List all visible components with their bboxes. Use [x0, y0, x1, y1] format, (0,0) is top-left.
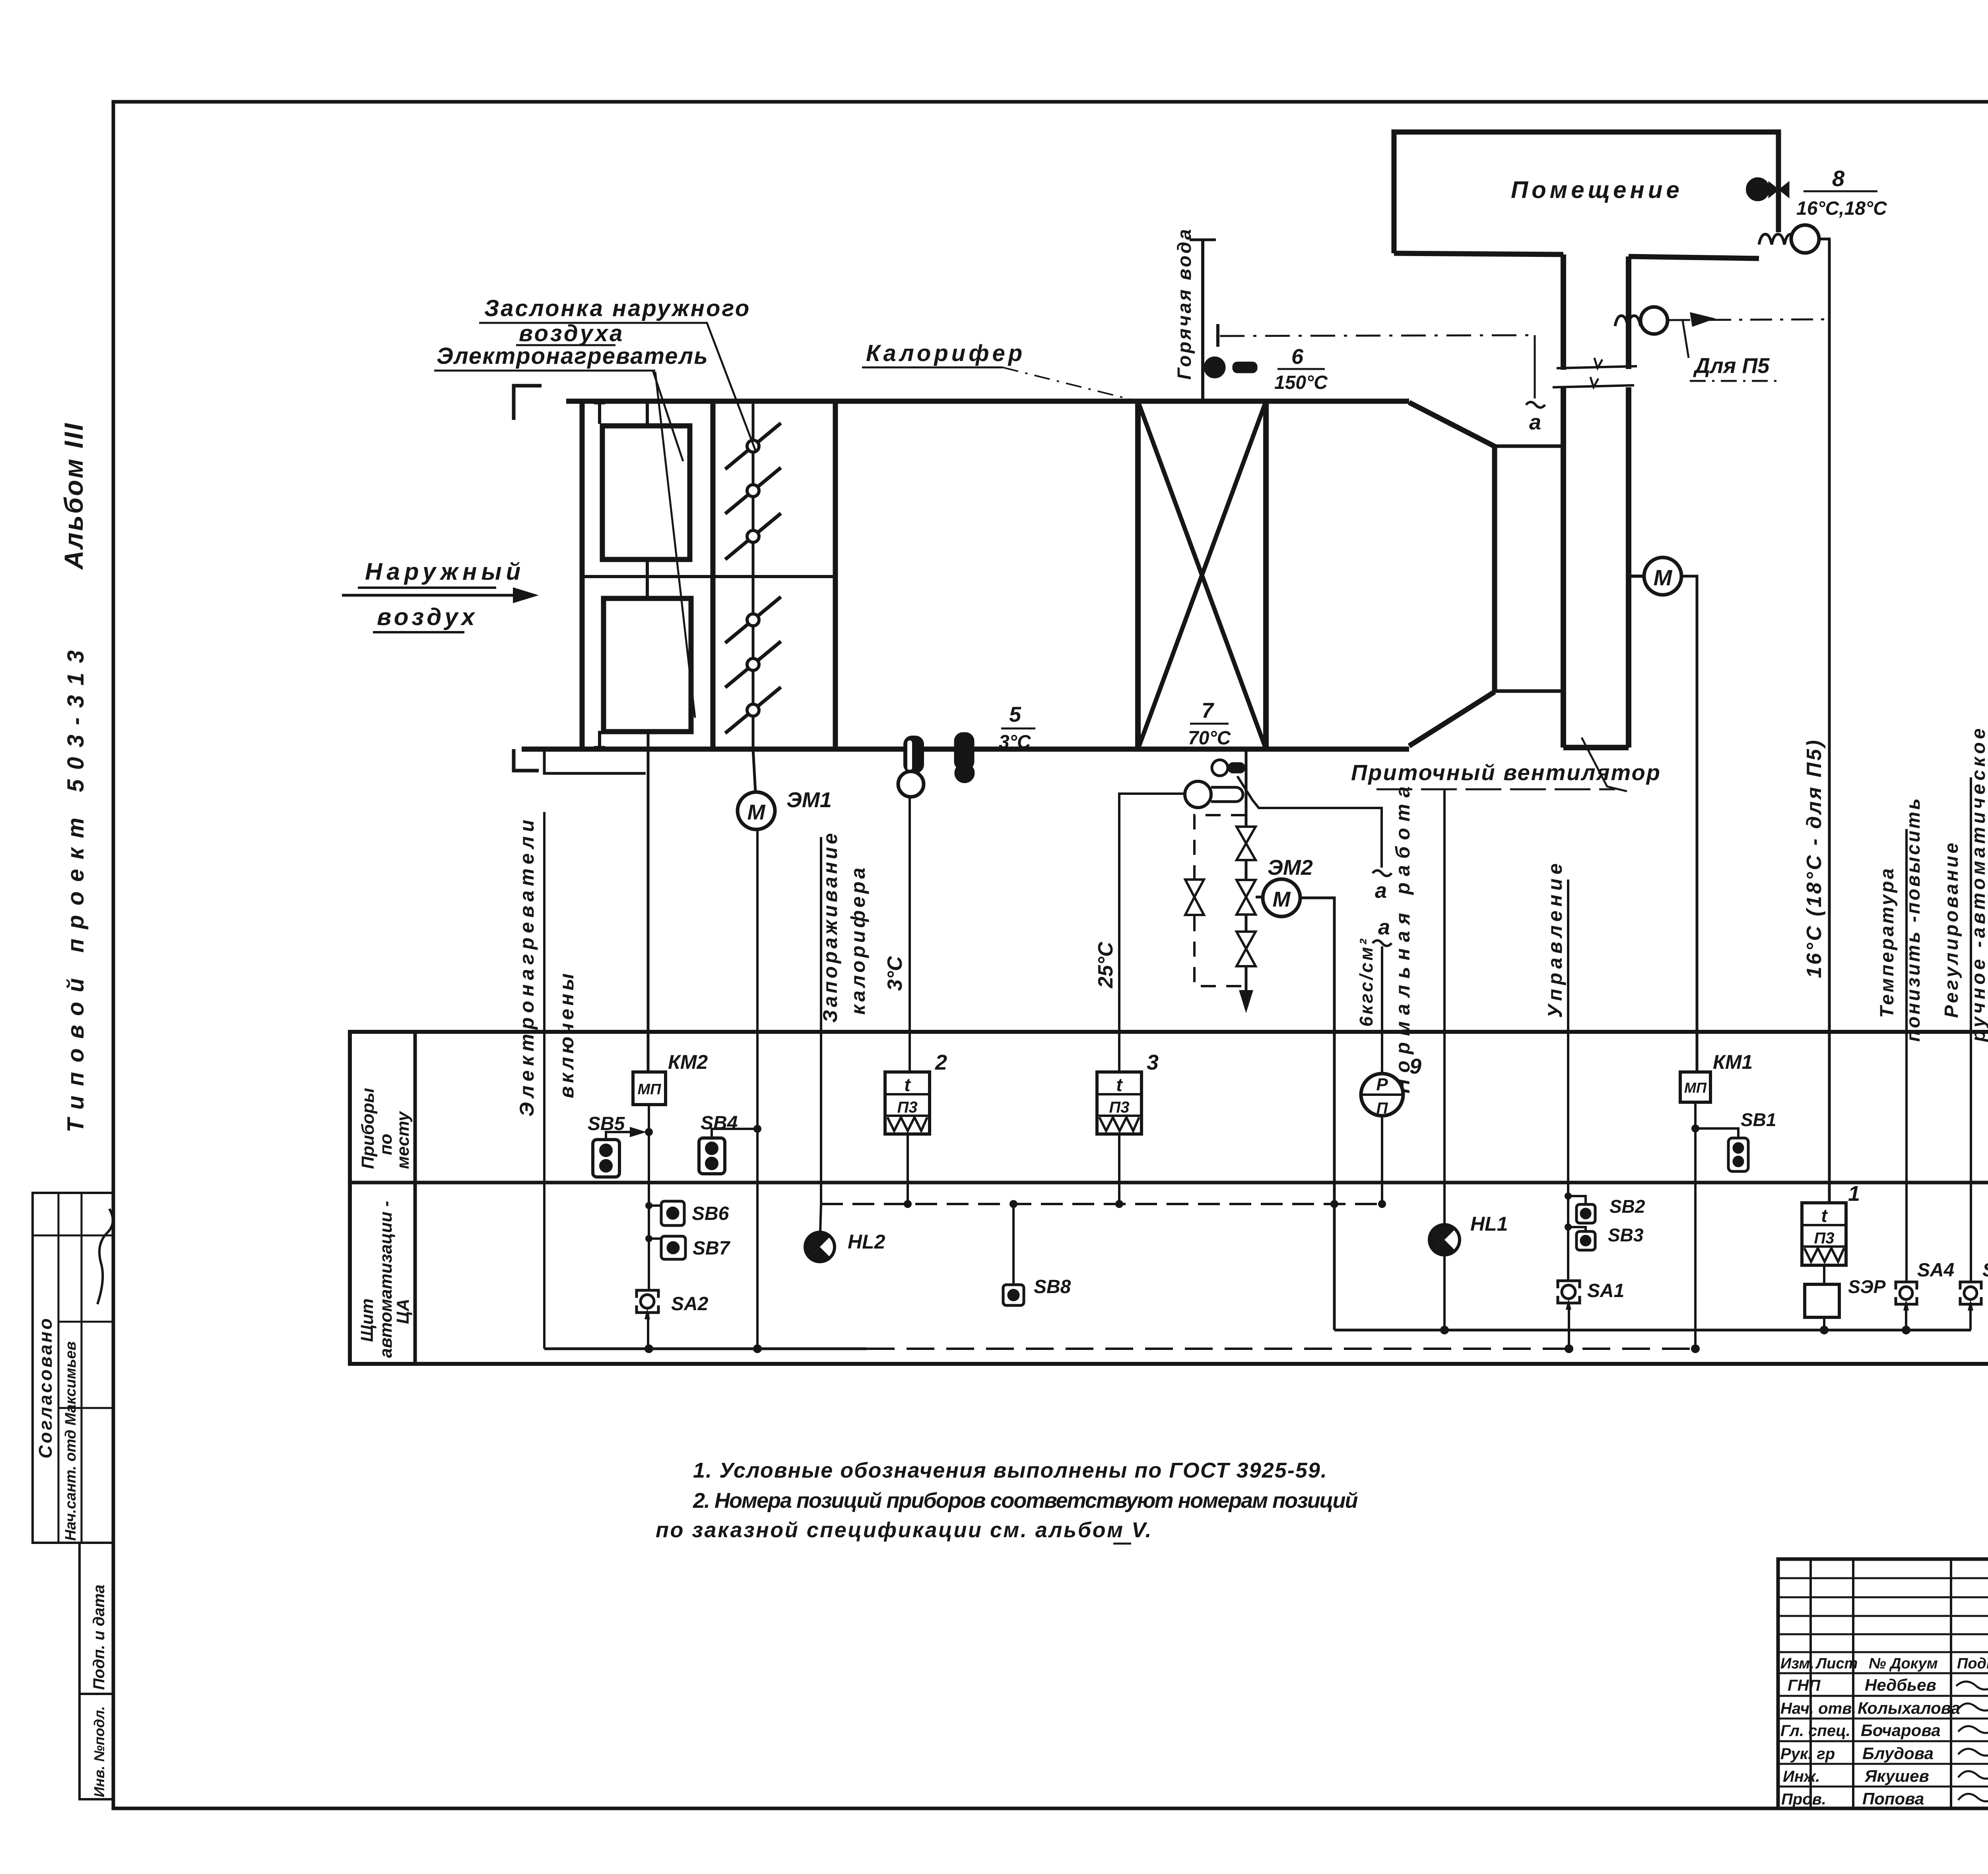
- SA1 stem to bus: [1568, 1310, 1570, 1349]
- contactor KM1 box МП: [1680, 1072, 1710, 1102]
- label: Наружный воздух: [365, 558, 525, 630]
- svg-text:a: a: [1378, 915, 1390, 939]
- damper blade 4: [725, 597, 781, 643]
- instrument 1 stem to SJP: [1823, 1265, 1825, 1284]
- svg-text:6кгс/см²: 6кгс/см²: [1356, 937, 1376, 1027]
- svg-text:Температура: Температура: [1877, 866, 1898, 1018]
- switch SA4: [1896, 1282, 1917, 1311]
- gauge 9 lower stem: [1381, 1116, 1383, 1204]
- wire SB5 to KM2 column with arrow: [606, 1127, 646, 1140]
- fan inlet bottom stub: [1495, 689, 1563, 693]
- wire KM2 box to junction: [648, 1105, 650, 1132]
- instrument 2 lower stem: [907, 1134, 909, 1204]
- hot water pipe top tick: [1190, 239, 1216, 241]
- room sensor 8 bowtie: [1758, 181, 1789, 198]
- room thermostat valve circle: [1791, 225, 1819, 253]
- svg-text:Лист: Лист: [1815, 1655, 1858, 1672]
- hot water pipe (Горячая вода): [1201, 239, 1204, 401]
- signature table column lines: [1811, 1559, 1988, 1808]
- svg-text:Гл. спец.: Гл. спец.: [1780, 1722, 1850, 1740]
- leader to fan: [1582, 738, 1627, 791]
- dash-dot leader from Калорифер to heat exchanger: [1003, 367, 1136, 401]
- electric heater box 1: [602, 426, 690, 559]
- wire sensor 7 to node a: [1237, 776, 1382, 868]
- svg-text:М: М: [747, 800, 766, 824]
- solenoid motor ЭМ2: [1256, 879, 1300, 917]
- svg-text:SЭР: SЭР: [1848, 1276, 1886, 1297]
- svg-text:t: t: [1821, 1205, 1828, 1226]
- svg-text:ЭМ1: ЭМ1: [786, 788, 832, 812]
- button SB5: [593, 1140, 619, 1177]
- top mounting tick: [594, 403, 605, 424]
- bus 2 junction dots: [645, 1344, 1700, 1353]
- signal line: Запораживание калорифера: [820, 837, 822, 1204]
- switch SA1: [1558, 1281, 1580, 1310]
- arrow on impulse line: [1690, 312, 1716, 327]
- rotated label: Электронагреватели включены: [516, 816, 578, 1117]
- svg-text:Подп.: Подп.: [1957, 1655, 1988, 1672]
- svg-text:понизить -повысить: понизить -повысить: [1903, 796, 1924, 1042]
- wire SB4 to ЭМ1 column: [712, 1129, 757, 1138]
- svg-text:Нормальная работа: Нормальная работа: [1392, 780, 1414, 1093]
- svg-text:месту: месту: [393, 1111, 413, 1169]
- operational dash bus: [821, 1203, 1382, 1205]
- svg-text:a: a: [1375, 879, 1387, 903]
- duct thermostat coil (П5): [1615, 316, 1640, 326]
- svg-text:П3: П3: [1109, 1099, 1129, 1116]
- button SB8: [1003, 1285, 1024, 1305]
- svg-text:П3: П3: [1814, 1229, 1834, 1247]
- HL1 lower stem: [1443, 1255, 1446, 1330]
- pipe segment between V2 and V3: [1245, 915, 1248, 932]
- rotated label: Температура понизить-повысить: [1877, 796, 1924, 1042]
- damper blade 2: [725, 468, 781, 514]
- junction dot SB2: [1565, 1192, 1572, 1200]
- fan motor M circle: [1629, 557, 1681, 595]
- svg-text:автоматизации -: автоматизации -: [376, 1201, 396, 1358]
- SA4 stem to bus: [1905, 1311, 1907, 1330]
- svg-text:SB2: SB2: [1609, 1196, 1645, 1217]
- svg-text:Рук. гр: Рук. гр: [1780, 1745, 1835, 1763]
- svg-text:Помещение: Помещение: [1511, 177, 1683, 203]
- svg-text:КМ1: КМ1: [1713, 1051, 1753, 1073]
- fraction label 5 / 3°C: [999, 703, 1031, 753]
- dash-dot impulse line Для П5: [1668, 319, 1829, 320]
- start tick of impulse line: [1216, 324, 1219, 347]
- electric heater box 2: [604, 598, 691, 732]
- svg-text:150°С: 150°С: [1274, 372, 1328, 393]
- box: Подп. и дата: [80, 1543, 113, 1694]
- node a squiggle (near fan): [1526, 402, 1545, 408]
- link valve circle to signal line: [1819, 238, 1831, 241]
- common bus 1 (right): [1334, 1329, 1971, 1332]
- svg-text:Альбом III: Альбом III: [59, 422, 88, 570]
- switch SA3: [1960, 1282, 1981, 1311]
- svg-text:2: 2: [935, 1051, 947, 1074]
- svg-text:SB7: SB7: [693, 1238, 731, 1259]
- rotated label: Щит автоматизации ЦА: [357, 1201, 413, 1358]
- wire to SB6: [649, 1201, 673, 1206]
- svg-text:П3: П3: [897, 1099, 917, 1116]
- fraction bar of sensor 6: [1277, 368, 1325, 370]
- junction dot below KM2: [645, 1128, 653, 1136]
- svg-text:МП: МП: [1684, 1080, 1707, 1096]
- room bottom-right edge: [1629, 256, 1759, 258]
- SA3 stem to bus: [1969, 1311, 1972, 1330]
- svg-text:Нач. отв.: Нач. отв.: [1780, 1700, 1856, 1717]
- signature table row lines: [1778, 1673, 1988, 1787]
- wall between heater and damper sections: [711, 401, 716, 749]
- leader 1 to heater box 1: [653, 371, 683, 461]
- svg-text:3°С: 3°С: [999, 732, 1031, 753]
- button SB3: [1576, 1231, 1595, 1250]
- outside air arrow: [342, 587, 539, 603]
- panel table outline: [350, 1032, 1988, 1364]
- svg-text:HL1: HL1: [1470, 1213, 1508, 1235]
- instrument 1 (t/П3) box: [1802, 1203, 1846, 1265]
- junction dot SB3: [1565, 1223, 1572, 1231]
- fan inlet top stub: [1495, 445, 1563, 448]
- heat exchanger (Калорифер) left wall: [1135, 401, 1141, 749]
- room sensor 8 bulb: [1747, 179, 1769, 200]
- bypass dashed loop: [1194, 815, 1246, 986]
- heat exchanger X diagonal 1: [1138, 401, 1266, 749]
- fan body bottom: [1563, 745, 1629, 750]
- duct break line 1: [1557, 358, 1637, 368]
- fan inlet cone top diagonal: [1409, 402, 1496, 447]
- wire ЭМ1 down to panel: [756, 829, 759, 1349]
- svg-text:3°С: 3°С: [883, 955, 907, 991]
- panel label column divider: [414, 1032, 417, 1364]
- svg-text:1. Условные обозначения выпол: 1. Условные обозначения выполнены по ГОС…: [693, 1458, 1328, 1482]
- signature squiggles: [1956, 1682, 1988, 1801]
- КМ2 column through SA2 to bus: [648, 1132, 649, 1349]
- contactor KM2 box МП: [633, 1072, 666, 1105]
- heater box 2 bottom stem / wire to KM2: [647, 732, 650, 1072]
- room (Помещение) outline: [1394, 132, 1778, 253]
- duct thermometer (black): [954, 732, 975, 783]
- instrument 3 (t/П3) box: [1097, 1072, 1142, 1134]
- valve V1 on return pipe: [1237, 827, 1256, 860]
- signature rows: roles: [1780, 1677, 1856, 1808]
- branch from impulse line to node a: [1534, 335, 1536, 398]
- fraction label 7 / 70°C: [1188, 699, 1231, 749]
- underline of Калорифер: [862, 367, 1003, 369]
- svg-text:2. Номера позиций приборов соо: 2. Номера позиций приборов соответствуют…: [693, 1489, 1358, 1513]
- wire to SB2: [1568, 1196, 1586, 1204]
- hot water return pipe upper segment: [1245, 749, 1248, 827]
- bus 1 junction dots: [1440, 1326, 1910, 1334]
- heater box 2 top stem: [646, 577, 649, 598]
- rotated label: Регулирование ручное-автоматическое: [1941, 725, 1988, 1043]
- rotated label: Приборы по месту: [358, 1088, 413, 1169]
- svg-text:16°С,18°С: 16°С,18°С: [1796, 198, 1887, 219]
- panel row divider: [350, 1181, 1988, 1185]
- wire sensor to instrument 3: [1119, 794, 1185, 1072]
- pressure gauge 9 (Р/П): [1361, 1074, 1403, 1117]
- junction dot SB6: [645, 1202, 652, 1209]
- svg-text:Горячая вода: Горячая вода: [1174, 227, 1195, 380]
- lamp HL1: [1429, 1225, 1460, 1255]
- svg-text:6: 6: [1291, 345, 1304, 369]
- approval block row line 3: [58, 1407, 113, 1409]
- svg-text:Запораживание: Запораживание: [819, 830, 841, 1023]
- svg-text:Для П5: Для П5: [1693, 354, 1770, 378]
- svg-text:SA1: SA1: [1587, 1280, 1624, 1301]
- svg-text:Калорифер: Калорифер: [866, 340, 1025, 366]
- svg-text:SA4: SA4: [1917, 1260, 1954, 1281]
- bottom-left mounting bracket: [514, 749, 539, 771]
- svg-text:Электронагреватели: Электронагреватели: [516, 816, 538, 1117]
- svg-text:КМ2: КМ2: [668, 1051, 708, 1073]
- damper actuator ЭМ1 rod: [753, 749, 755, 792]
- approval block row line 1: [33, 1235, 113, 1237]
- leader 2 to heater box 2: [655, 372, 695, 718]
- bottom mounting tick: [594, 731, 605, 749]
- button SB6: [661, 1201, 684, 1225]
- svg-text:ручное -автоматическое: ручное -автоматическое: [1968, 725, 1988, 1043]
- button SB1: [1728, 1138, 1748, 1171]
- svg-text:9: 9: [1409, 1054, 1421, 1078]
- heat exchanger right wall: [1263, 401, 1269, 749]
- fan body right wall / supply duct right: [1626, 256, 1631, 748]
- svg-text:SB4: SB4: [701, 1113, 738, 1134]
- svg-text:№ Докум: № Докум: [1869, 1655, 1938, 1672]
- damper actuator motor ЭМ1: [738, 792, 775, 829]
- svg-text:П: П: [1376, 1099, 1388, 1117]
- hot water valve (black): [1204, 357, 1257, 378]
- junction dot SB4/ЭМ1: [753, 1125, 761, 1133]
- signal line: Температура понизить-повысить: [1905, 829, 1908, 1282]
- svg-text:SB3: SB3: [1608, 1225, 1644, 1245]
- svg-text:1: 1: [1848, 1182, 1860, 1206]
- svg-text:Электронагреватель: Электронагреватель: [437, 343, 709, 369]
- signal line: Нормальная работа: [1443, 789, 1446, 1225]
- duct break line 2: [1553, 377, 1634, 387]
- signal line: Регулирование ручное-автоматическое: [1970, 777, 1972, 1282]
- dash-dot underline of Для П5: [1690, 380, 1781, 382]
- svg-text:включены: включены: [555, 970, 578, 1098]
- label: Заслонка наружного воздуха: [484, 295, 751, 346]
- svg-text:Бочарова: Бочарова: [1861, 1721, 1941, 1740]
- svg-text:SA2: SA2: [671, 1293, 709, 1315]
- svg-text:Типовой проект 503-313: Типовой проект 503-313: [63, 641, 89, 1132]
- dash-dot impulse line from hot water sensor to node a: [1220, 335, 1536, 336]
- svg-text:М: М: [1654, 565, 1673, 590]
- damper blade 5: [725, 641, 781, 687]
- svg-text:70°С: 70°С: [1188, 728, 1231, 749]
- switch SA2: [637, 1290, 658, 1319]
- svg-text:Инв. №подл.: Инв. №подл.: [91, 1706, 107, 1797]
- signature rows: names: [1858, 1676, 1960, 1808]
- svg-text:t: t: [1116, 1074, 1123, 1095]
- rotated label: Запораживание калорифера: [819, 830, 869, 1023]
- valve V3 on return pipe: [1237, 932, 1256, 966]
- dash bus junction dots: [904, 1200, 1386, 1208]
- approval block (Согласовано) outer box: [33, 1193, 113, 1543]
- svg-text:HL2: HL2: [848, 1231, 885, 1253]
- lamp HL2: [805, 1204, 835, 1262]
- rotated label: Нормальная работа: [1392, 780, 1414, 1093]
- svg-text:ГНП: ГНП: [1788, 1677, 1821, 1694]
- wire thermometer to instrument 2: [909, 797, 911, 1072]
- SЭР stem to bus: [1823, 1317, 1825, 1330]
- box: Инв. № подл.: [80, 1694, 113, 1799]
- button SB2: [1576, 1204, 1595, 1223]
- svg-text:Р: Р: [1376, 1075, 1388, 1094]
- AHU bottom duct wall: [522, 747, 1409, 752]
- room bottom-left edge: [1394, 253, 1563, 254]
- svg-text:Регулирование: Регулирование: [1941, 841, 1962, 1018]
- wire to SB3: [1568, 1227, 1586, 1231]
- svg-text:SB5: SB5: [588, 1113, 625, 1134]
- svg-text:МП: МП: [638, 1081, 662, 1098]
- KM1 column lower segment: [1694, 1102, 1697, 1349]
- signal line: Управление: [1567, 880, 1569, 1281]
- fraction bar of sensor 8: [1804, 190, 1877, 192]
- svg-text:Приборы: Приборы: [358, 1088, 378, 1169]
- air sensor 25°C pocket: [1185, 781, 1243, 808]
- svg-text:7: 7: [1202, 699, 1215, 722]
- top-left mounting bracket: [514, 386, 542, 420]
- fraction bar of sensor 5: [1001, 728, 1035, 730]
- approval block column line 2: [81, 1193, 83, 1543]
- fraction label 8 / 16°C,18°C: [1796, 166, 1887, 219]
- svg-text:М: М: [1273, 887, 1291, 911]
- wire ЭМ2 to panel: [1300, 898, 1334, 1330]
- approval signature squiggle: [97, 1209, 113, 1304]
- valve V2 (motorized) on return pipe: [1237, 880, 1256, 915]
- svg-text:25°С: 25°С: [1094, 941, 1117, 988]
- title block outer box: [1778, 1559, 1988, 1808]
- underline of album V: [1113, 1543, 1131, 1545]
- heater box 1 bottom stem: [646, 559, 649, 577]
- approval block column line 1: [58, 1193, 60, 1543]
- svg-text:16°С (18°С - для П5): 16°С (18°С - для П5): [1803, 738, 1826, 978]
- heat exchanger X diagonal 2: [1138, 401, 1266, 749]
- junction dot SB7: [645, 1235, 652, 1242]
- bypass valve (dashed loop): [1185, 880, 1204, 915]
- svg-text:Согласовано: Согласовано: [35, 1317, 56, 1458]
- pipe segment below V3 with drain arrow: [1239, 966, 1253, 1013]
- AHU top duct wall: [566, 399, 1409, 404]
- AHU mid horizontal divider: [582, 575, 835, 578]
- svg-text:Блудова: Блудова: [1862, 1744, 1934, 1763]
- leader from Заслонка to damper: [707, 323, 756, 452]
- svg-text:5: 5: [1009, 703, 1021, 726]
- damper blade 3: [725, 513, 781, 559]
- svg-text:по: по: [376, 1134, 396, 1155]
- node a squiggle (pressure line): [1373, 940, 1392, 946]
- underline of Приточный вентилятор: [1376, 788, 1615, 790]
- duct thermometer (open) stem: [903, 736, 924, 773]
- svg-text:Изм.: Изм.: [1780, 1655, 1814, 1672]
- damper blade 6: [725, 687, 781, 733]
- underline of Заслонка label: [479, 323, 708, 345]
- heater box 1 top stem: [646, 401, 649, 426]
- svg-text:8: 8: [1832, 166, 1845, 191]
- svg-text:3: 3: [1147, 1051, 1159, 1074]
- 16°C signal line down to instrument 1: [1828, 239, 1831, 1204]
- AHU left wall: [580, 401, 585, 749]
- svg-text:Пров.: Пров.: [1781, 1790, 1826, 1808]
- fraction bar of sensor 7: [1190, 723, 1229, 725]
- pressure impulse line to gauge 9: [1381, 946, 1383, 1074]
- leader tick for Для П5: [1683, 320, 1689, 358]
- underline of Электронагреватель: [434, 370, 655, 372]
- instrument 3 lower stem: [1118, 1134, 1120, 1204]
- damper axis rod: [752, 401, 755, 749]
- signature table thin top rows: [1778, 1578, 1988, 1652]
- svg-text:ЦА: ЦА: [393, 1299, 413, 1324]
- heater wire step stub: [544, 751, 646, 773]
- svg-text:по заказной спецификации см.: по заказной спецификации см. альбом V.: [656, 1518, 1153, 1542]
- svg-text:Недбьев: Недбьев: [1865, 1676, 1936, 1694]
- fan body left wall / supply duct left: [1561, 254, 1566, 748]
- svg-text:Щит: Щит: [357, 1298, 377, 1342]
- svg-text:Управление: Управление: [1544, 859, 1566, 1018]
- svg-text:воздуха: воздуха: [519, 320, 624, 346]
- wire from fan motor to KM1 column: [1681, 576, 1697, 1072]
- svg-text:Якушев: Якушев: [1864, 1767, 1929, 1785]
- fan inlet cone bottom diagonal: [1409, 692, 1495, 746]
- svg-text:SB6: SB6: [692, 1203, 729, 1224]
- node a squiggle (sensor 7): [1373, 870, 1392, 876]
- svg-text:воздух: воздух: [377, 604, 478, 630]
- fraction label 6 / 150°C: [1274, 345, 1328, 393]
- fan inlet cone right wall: [1492, 446, 1497, 692]
- svg-text:a: a: [1529, 410, 1541, 434]
- pipe sensor 7 pocket: [1212, 760, 1245, 776]
- pipe segment between V1 and V2: [1245, 860, 1248, 880]
- radiator coil on room wall: [1759, 234, 1797, 245]
- svg-text:Инж.: Инж.: [1783, 1768, 1820, 1785]
- button SB8 stem: [1012, 1204, 1015, 1285]
- header: Изм Лист № Докум Подп Дата: [1780, 1655, 1988, 1672]
- svg-text:Наружный: Наружный: [365, 558, 525, 585]
- common bus 2 (dashed part): [867, 1348, 1695, 1350]
- damper section right wall: [833, 401, 838, 749]
- svg-text:Попова: Попова: [1862, 1789, 1924, 1808]
- instrument 2 (t/П3) box: [885, 1072, 930, 1134]
- common bus 2 (left, solid part): [544, 1348, 867, 1350]
- underline of Наружный: [358, 588, 496, 632]
- wire KM1 to SB1: [1695, 1128, 1738, 1138]
- relay SЭР box: [1805, 1284, 1839, 1317]
- svg-text:SB8: SB8: [1034, 1276, 1071, 1297]
- svg-text:Колыхалова: Колыхалова: [1858, 1699, 1960, 1717]
- svg-text:SB1: SB1: [1741, 1109, 1776, 1130]
- signal line: Электронагреватели включены: [543, 812, 546, 1349]
- svg-text:t: t: [904, 1074, 911, 1095]
- button SB4: [699, 1138, 725, 1174]
- button SB7: [661, 1236, 685, 1259]
- damper blade 1: [725, 423, 781, 469]
- svg-text:Подп. и дата: Подп. и дата: [90, 1585, 108, 1690]
- svg-text:калорифера: калорифера: [847, 865, 869, 1015]
- duct thermometer (open) bulb: [898, 771, 924, 797]
- approval block row line 2: [58, 1321, 113, 1323]
- svg-text:Заслонка наружного: Заслонка наружного: [484, 295, 751, 321]
- svg-text:ЭМ2: ЭМ2: [1268, 856, 1313, 880]
- svg-text:Нач.сант. отд Максимьев: Нач.сант. отд Максимьев: [62, 1341, 79, 1541]
- duct thermostat circle (П5): [1640, 307, 1668, 334]
- junction dot KM1/SB1: [1691, 1124, 1699, 1132]
- wire to SB7: [649, 1236, 673, 1239]
- svg-text:SA3: SA3: [1982, 1260, 1988, 1281]
